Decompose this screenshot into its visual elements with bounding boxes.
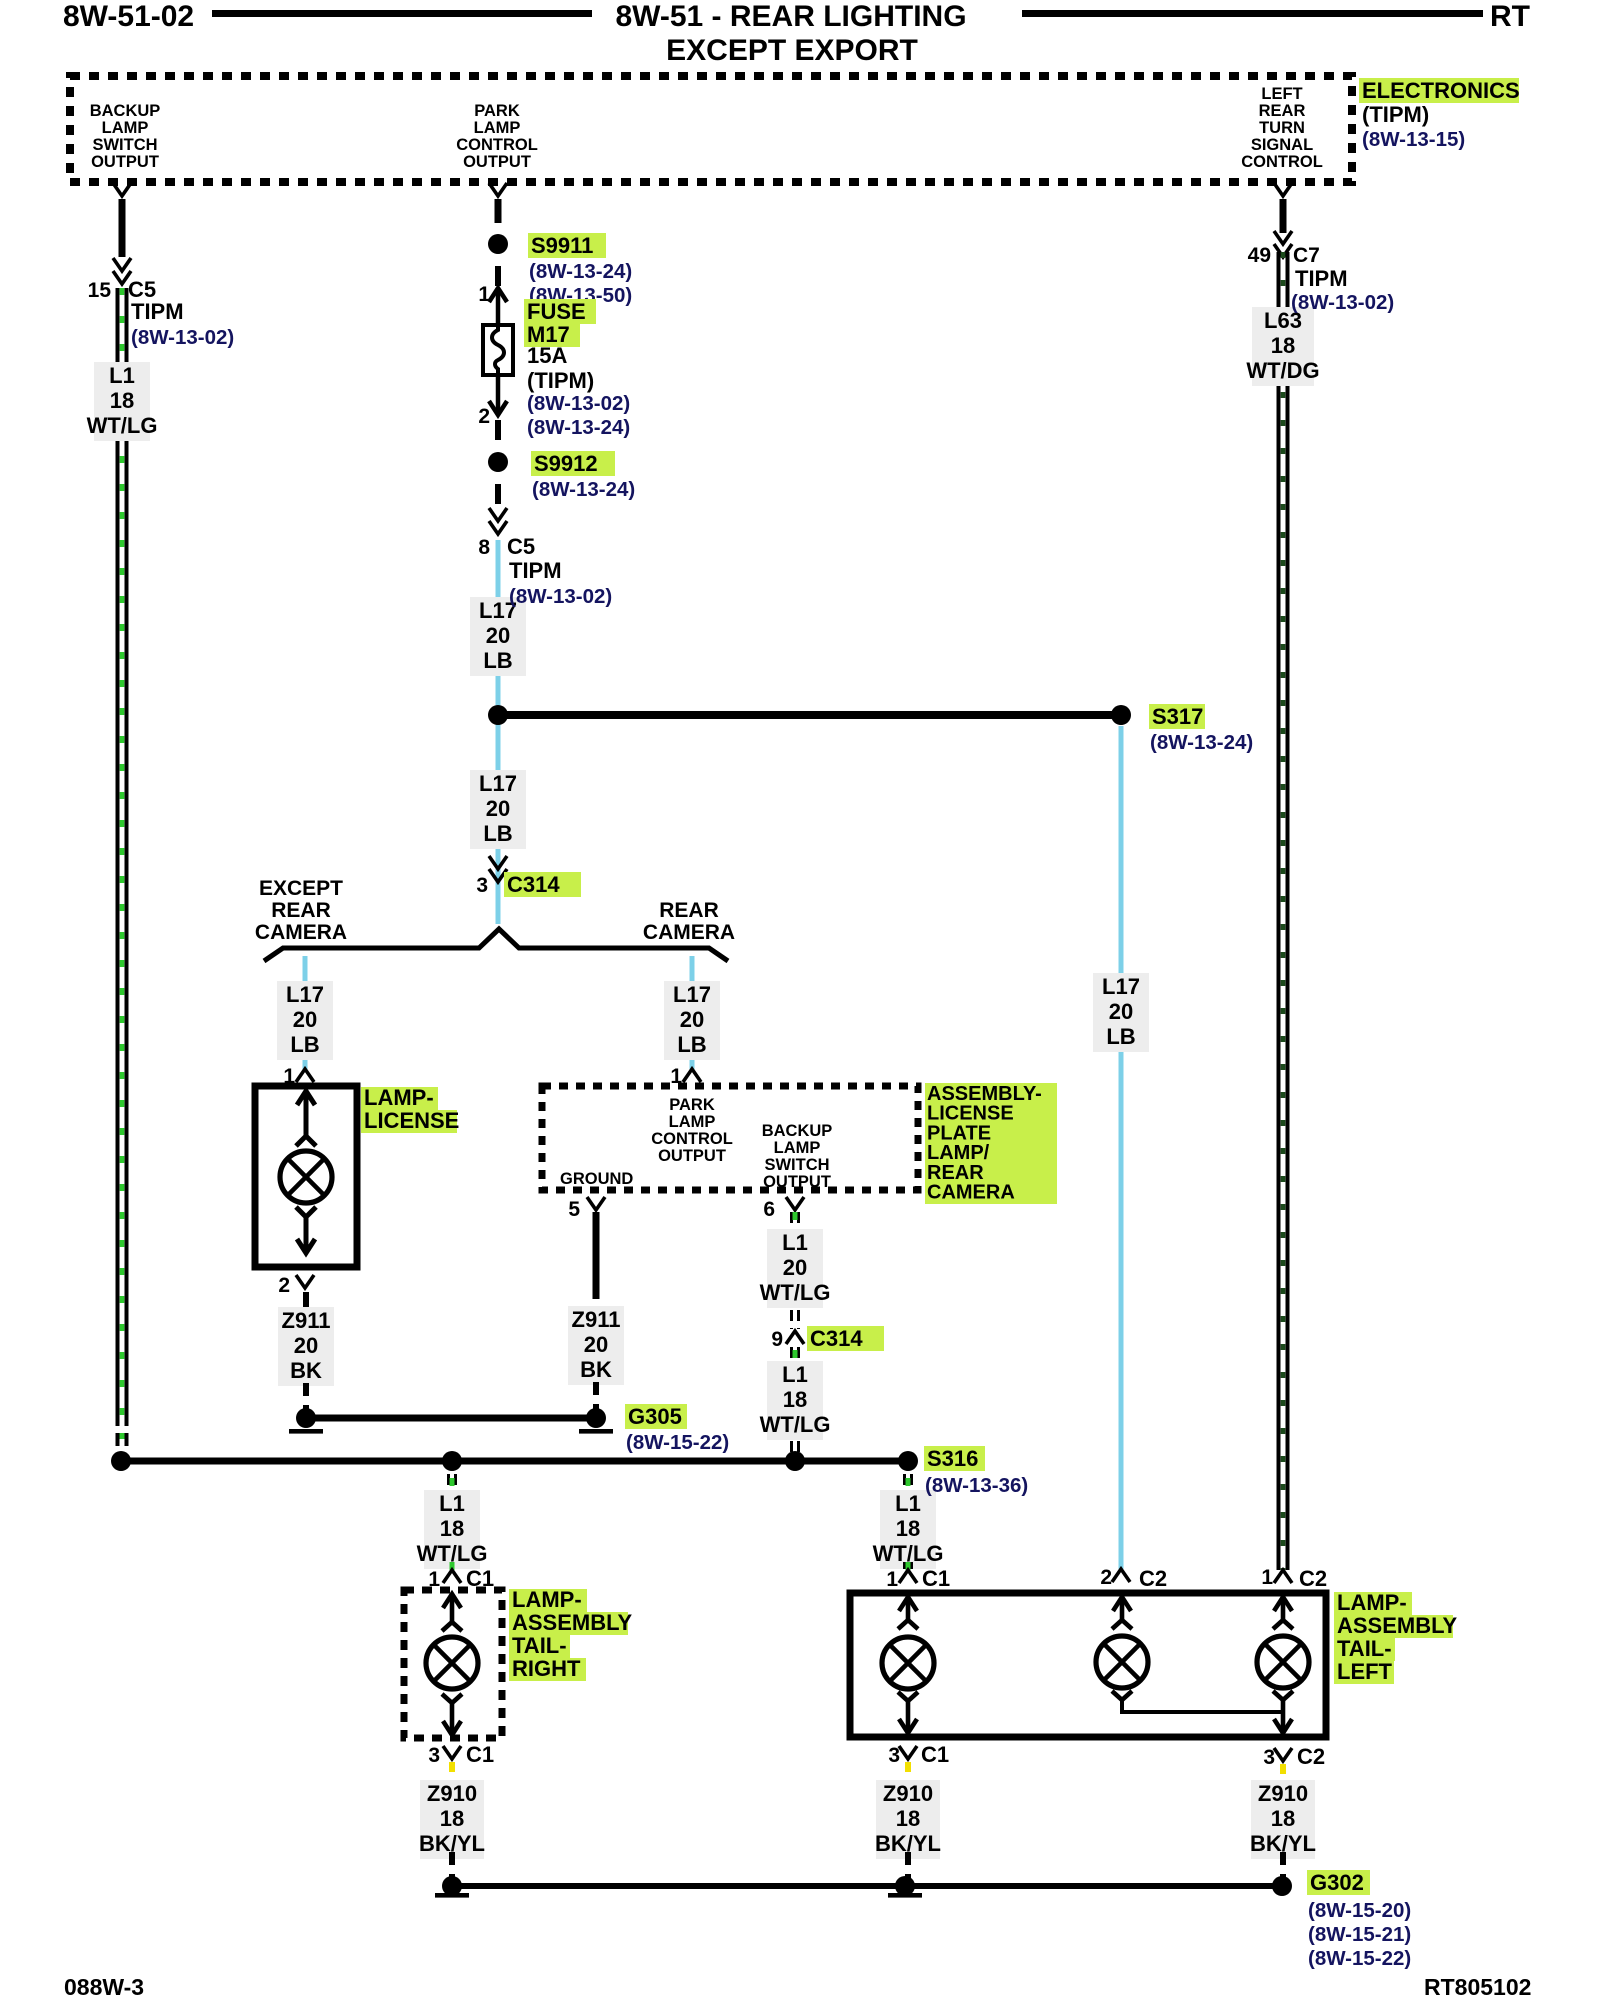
- wire label L1 18 WT/LG: [94, 362, 150, 441]
- svg-text:C314: C314: [507, 872, 560, 897]
- lamp assembly tail-left box: [850, 1593, 1326, 1737]
- svg-text:(8W-15-22): (8W-15-22): [626, 1431, 729, 1454]
- svg-text:(8W-13-24): (8W-13-24): [1150, 731, 1253, 754]
- svg-text:LB: LB: [290, 1032, 319, 1057]
- svg-text:18: 18: [440, 1806, 464, 1831]
- label ASSEMBLY-LICENSE PLATE LAMP/REAR CAMERA: [925, 1083, 1057, 1204]
- svg-text:LEFT: LEFT: [1337, 1659, 1393, 1684]
- pin chevron at TIPM park lamp output: [489, 183, 507, 196]
- svg-text:REAR: REAR: [1259, 102, 1306, 120]
- tail-left lamp 2 feed arrow: [1120, 1597, 1125, 1619]
- wire L17 20 LB to license lamp: [303, 956, 308, 1070]
- right tail lamp internal feed arrow: [450, 1594, 455, 1622]
- svg-text:L17: L17: [286, 982, 324, 1007]
- svg-text:3: 3: [428, 1744, 440, 1767]
- wire label Z910 18 BK/YL c: [1251, 1780, 1315, 1859]
- svg-text:8W-51 - REAR LIGHTING: 8W-51 - REAR LIGHTING: [615, 0, 966, 33]
- svg-text:WT/LG: WT/LG: [87, 413, 158, 438]
- svg-text:9: 9: [771, 1328, 783, 1351]
- svg-text:(8W-15-22): (8W-15-22): [1308, 1947, 1411, 1970]
- wire Z910 dashed to G302 (tail-left C2): [1280, 1852, 1286, 1878]
- lamp assembly tail-right dashed box: [404, 1590, 502, 1738]
- internal wire joining lamp 2 to lamp 3: [1122, 1700, 1283, 1712]
- wire label L1 20 WT/LG: [767, 1229, 823, 1308]
- svg-text:(8W-13-02): (8W-13-02): [1291, 291, 1394, 314]
- svg-text:C1: C1: [466, 1742, 494, 1767]
- svg-text:TURN: TURN: [1259, 119, 1305, 137]
- svg-text:2: 2: [1100, 1566, 1112, 1589]
- brace wire split to two branches: [264, 929, 728, 961]
- wire L1 18 WT/LG dashed: [790, 1347, 793, 1360]
- svg-text:Z910: Z910: [1258, 1781, 1308, 1806]
- svg-text:C1: C1: [922, 1566, 950, 1591]
- svg-text:18: 18: [110, 388, 134, 413]
- wire label L17 20 LB tail: [1093, 973, 1149, 1052]
- svg-text:(TIPM): (TIPM): [1362, 102, 1429, 127]
- header rule right: [1022, 10, 1483, 17]
- wire label L17 20 LB upper: [470, 597, 526, 676]
- svg-text:SIGNAL: SIGNAL: [1251, 136, 1313, 154]
- svg-text:ASSEMBLY-: ASSEMBLY-: [927, 1083, 1042, 1105]
- tail-left lamp 1 element: [882, 1637, 934, 1689]
- svg-text:LAMP: LAMP: [669, 1113, 716, 1131]
- wire stub from TIPM pin 15: [119, 199, 126, 257]
- svg-text:S9911: S9911: [531, 233, 593, 258]
- connector C7 double chevron (pin 49): [1274, 231, 1292, 244]
- svg-text:WT/LG: WT/LG: [760, 1412, 831, 1437]
- svg-text:L1: L1: [895, 1491, 921, 1516]
- tail-left lamp 2 ground chevron: [1112, 1691, 1132, 1700]
- ground G305 bus: [306, 1415, 596, 1422]
- tail-left lamp 3 element: [1257, 1636, 1309, 1688]
- label G305: [625, 1404, 687, 1429]
- svg-text:CAMERA: CAMERA: [927, 1182, 1015, 1204]
- svg-text:PARK: PARK: [669, 1096, 715, 1114]
- svg-text:REAR: REAR: [659, 899, 719, 922]
- svg-text:L1: L1: [439, 1491, 465, 1516]
- svg-text:LAMP: LAMP: [774, 1139, 821, 1157]
- svg-text:ASSEMBLY: ASSEMBLY: [1337, 1613, 1458, 1638]
- svg-text:OUTPUT: OUTPUT: [658, 1147, 726, 1165]
- svg-text:EXCEPT EXPORT: EXCEPT EXPORT: [666, 34, 918, 67]
- right tail lamp internal ground arrow: [442, 1694, 462, 1703]
- svg-text:C2: C2: [1299, 1566, 1327, 1591]
- wire dash below S9911: [495, 266, 501, 286]
- svg-text:LICENSE: LICENSE: [927, 1103, 1014, 1125]
- svg-text:LAMP-: LAMP-: [512, 1587, 582, 1612]
- svg-text:L1: L1: [109, 363, 135, 388]
- svg-text:LB: LB: [1106, 1024, 1135, 1049]
- svg-text:G305: G305: [628, 1404, 682, 1429]
- splice S316 bus: [121, 1458, 908, 1465]
- wire label L1 18 WT/LG left tail: [880, 1490, 936, 1569]
- svg-text:6: 6: [763, 1198, 775, 1221]
- wire label Z911 20 BK right: [568, 1306, 624, 1385]
- svg-text:(8W-13-24): (8W-13-24): [532, 478, 635, 501]
- wire label L17 20 LB lower: [470, 770, 526, 849]
- svg-text:18: 18: [440, 1516, 464, 1541]
- svg-text:CONTROL: CONTROL: [1241, 153, 1323, 171]
- svg-text:8W-51-02: 8W-51-02: [63, 0, 194, 33]
- header rule left: [212, 10, 592, 17]
- wire L1 18 WT/LG to right tail lamp: [447, 1474, 450, 1489]
- pin chevron at TIPM backup lamp output: [113, 183, 131, 196]
- svg-text:BK: BK: [580, 1357, 612, 1382]
- svg-text:LAMP-: LAMP-: [364, 1085, 434, 1110]
- svg-text:8: 8: [478, 536, 490, 559]
- tail-left lamp 3 feed arrow: [1281, 1597, 1286, 1619]
- pin chevron at TIPM left rear turn signal: [1274, 183, 1292, 196]
- svg-text:L17: L17: [673, 982, 711, 1007]
- wire L17 20 LB (center): [496, 540, 501, 924]
- svg-text:WT/DG: WT/DG: [1246, 358, 1319, 383]
- svg-text:C1: C1: [921, 1742, 949, 1767]
- connector C5 double chevron (pin 8): [489, 508, 507, 521]
- svg-text:088W-3: 088W-3: [64, 1974, 144, 2000]
- svg-text:5: 5: [568, 1198, 580, 1221]
- svg-text:PARK: PARK: [474, 102, 520, 120]
- svg-text:SWITCH: SWITCH: [764, 1156, 829, 1174]
- svg-text:BACKUP: BACKUP: [762, 1122, 833, 1140]
- svg-text:FUSE: FUSE: [527, 299, 586, 324]
- wire label Z910 18 BK/YL a: [420, 1780, 484, 1859]
- svg-text:S317: S317: [1152, 704, 1203, 729]
- svg-text:LEFT: LEFT: [1261, 85, 1302, 103]
- svg-text:TIPM: TIPM: [131, 299, 184, 324]
- svg-text:20: 20: [486, 623, 510, 648]
- wire label L17 20 LB branch left: [277, 981, 333, 1060]
- lamp LICENSE box: [255, 1086, 357, 1267]
- svg-text:18: 18: [783, 1387, 807, 1412]
- wire Z911 from ground pin: [593, 1212, 600, 1299]
- svg-text:RT805102: RT805102: [1424, 1974, 1531, 2000]
- svg-text:18: 18: [896, 1806, 920, 1831]
- wire L17 20 LB to assembly: [690, 956, 695, 1070]
- svg-text:CAMERA: CAMERA: [643, 921, 735, 944]
- svg-text:CAMERA: CAMERA: [255, 921, 347, 944]
- svg-text:LB: LB: [483, 821, 512, 846]
- svg-text:(8W-13-02): (8W-13-02): [131, 326, 234, 349]
- svg-text:S9912: S9912: [534, 451, 598, 476]
- svg-text:LAMP/: LAMP/: [927, 1142, 990, 1164]
- splice S317 junction: [498, 711, 1121, 719]
- svg-text:18: 18: [896, 1516, 920, 1541]
- svg-text:15A: 15A: [527, 343, 567, 368]
- svg-text:(8W-15-21): (8W-15-21): [1308, 1923, 1411, 1946]
- svg-text:G302: G302: [1310, 1870, 1364, 1895]
- svg-text:Z910: Z910: [883, 1781, 933, 1806]
- svg-text:L17: L17: [1102, 974, 1140, 999]
- svg-text:TIPM: TIPM: [1295, 266, 1348, 291]
- svg-text:2: 2: [278, 1274, 290, 1297]
- label LAMP-ASSEMBLY TAIL-LEFT: [1334, 1592, 1412, 1615]
- svg-text:Z910: Z910: [427, 1781, 477, 1806]
- label G302: [1307, 1870, 1370, 1895]
- tail-left lamp 1 feed arrow: [906, 1597, 911, 1619]
- svg-text:C7: C7: [1293, 244, 1320, 267]
- wire stub from turn signal control: [1280, 199, 1287, 233]
- svg-text:ELECTRONICS: ELECTRONICS: [1362, 78, 1520, 103]
- svg-text:20: 20: [783, 1255, 807, 1280]
- wire label Z911 20 BK left: [278, 1307, 334, 1386]
- wire L1 20 WT/LG dashed: [790, 1212, 793, 1228]
- svg-text:LB: LB: [483, 648, 512, 673]
- svg-text:BACKUP: BACKUP: [90, 102, 161, 120]
- right tail lamp element: [426, 1637, 478, 1689]
- svg-text:20: 20: [584, 1332, 608, 1357]
- svg-text:BK: BK: [290, 1358, 322, 1383]
- license lamp internal ground arrow: [296, 1207, 316, 1217]
- svg-text:LAMP-: LAMP-: [1337, 1590, 1407, 1615]
- license lamp element: [280, 1151, 332, 1203]
- svg-text:3: 3: [476, 874, 488, 897]
- svg-text:TIPM: TIPM: [509, 558, 562, 583]
- svg-text:GROUND: GROUND: [560, 1170, 633, 1188]
- tail-left lamp 2 element: [1096, 1636, 1148, 1688]
- wire label L1 18 WT/LG right tail: [424, 1490, 480, 1569]
- svg-text:OUTPUT: OUTPUT: [463, 153, 531, 171]
- svg-text:(8W-13-02): (8W-13-02): [527, 392, 630, 415]
- svg-text:C314: C314: [810, 1326, 863, 1351]
- svg-text:20: 20: [1109, 999, 1133, 1024]
- license lamp internal feed arrow: [304, 1091, 309, 1137]
- wire L63 18 WT/DG: [1277, 252, 1281, 1570]
- svg-text:20: 20: [293, 1007, 317, 1032]
- svg-text:LAMP: LAMP: [102, 119, 149, 137]
- ground G302 bus: [452, 1883, 1282, 1889]
- svg-text:SWITCH: SWITCH: [92, 136, 157, 154]
- splice S9911: [488, 234, 508, 254]
- svg-text:(8W-13-15): (8W-13-15): [1362, 128, 1465, 151]
- svg-text:EXCEPT: EXCEPT: [259, 877, 343, 900]
- svg-text:20: 20: [680, 1007, 704, 1032]
- svg-text:18: 18: [1271, 333, 1295, 358]
- svg-text:LB: LB: [677, 1032, 706, 1057]
- svg-text:S316: S316: [927, 1446, 978, 1471]
- wire Z910 dashed to G302 (tail-left C1): [905, 1852, 911, 1878]
- svg-text:TAIL-: TAIL-: [1337, 1636, 1392, 1661]
- svg-text:Z911: Z911: [572, 1307, 621, 1332]
- wire L1 18 WT/LG (left): [116, 288, 120, 1426]
- connector C314 double chevron (pin 3): [489, 856, 507, 869]
- svg-text:OUTPUT: OUTPUT: [763, 1173, 831, 1191]
- svg-text:20: 20: [294, 1333, 318, 1358]
- label ELECTRONICS (TIPM): [1359, 78, 1519, 103]
- svg-text:L17: L17: [479, 771, 517, 796]
- fuse M17 15A: [483, 325, 513, 375]
- svg-text:REAR: REAR: [271, 899, 331, 922]
- wire label L1 18 WT/LG mid: [767, 1361, 823, 1440]
- svg-text:OUTPUT: OUTPUT: [91, 153, 159, 171]
- svg-text:15: 15: [88, 279, 112, 302]
- wire label Z910 18 BK/YL b: [876, 1780, 940, 1859]
- tail-left lamp 3 ground arrow: [1273, 1691, 1293, 1700]
- svg-text:(8W-13-24): (8W-13-24): [527, 416, 630, 439]
- splice S9912: [488, 452, 508, 472]
- svg-text:1: 1: [886, 1568, 898, 1591]
- svg-text:C2: C2: [1139, 1566, 1167, 1591]
- svg-text:(8W-13-24): (8W-13-24): [529, 260, 632, 283]
- wire Z911 dashed to G305: [303, 1383, 309, 1412]
- svg-text:(8W-13-02): (8W-13-02): [509, 585, 612, 608]
- svg-text:CONTROL: CONTROL: [456, 136, 538, 154]
- wire stub from park lamp control output: [495, 199, 502, 223]
- svg-text:1: 1: [1261, 1566, 1273, 1589]
- svg-text:(TIPM): (TIPM): [527, 368, 594, 393]
- svg-text:C5: C5: [507, 534, 535, 559]
- svg-text:18: 18: [1271, 1806, 1295, 1831]
- svg-text:20: 20: [486, 796, 510, 821]
- svg-text:(8W-15-20): (8W-15-20): [1308, 1899, 1411, 1922]
- svg-text:2: 2: [478, 405, 490, 428]
- wire L17 20 LB from S317: [1119, 726, 1124, 1569]
- module TIPM (ELECTRONICS) dashed box: [70, 76, 1352, 182]
- svg-text:L1: L1: [782, 1230, 808, 1255]
- svg-text:PLATE: PLATE: [927, 1122, 991, 1144]
- assembly license plate lamp / rear camera dashed box: [542, 1086, 918, 1190]
- svg-text:1: 1: [478, 283, 490, 306]
- svg-text:Z911: Z911: [282, 1308, 331, 1333]
- svg-text:REAR: REAR: [927, 1162, 984, 1184]
- wire L1 18 WT/LG to tail-left lamp pin 1: [903, 1474, 906, 1491]
- svg-text:LICENSE: LICENSE: [364, 1108, 459, 1133]
- label S316: [924, 1446, 985, 1471]
- svg-text:49: 49: [1248, 244, 1271, 267]
- wire label L17 20 LB branch right: [664, 981, 720, 1060]
- svg-text:RT: RT: [1490, 0, 1530, 33]
- tail-left lamp 1 ground arrow: [898, 1692, 918, 1701]
- svg-text:CONTROL: CONTROL: [651, 1130, 733, 1148]
- wire Z910 dashed to G302 (right tail): [449, 1852, 455, 1878]
- wire dash below S9912: [495, 484, 501, 504]
- wire label L63 18 WT/DG: [1252, 307, 1314, 386]
- connector C5 double chevron: [113, 258, 131, 271]
- svg-text:L1: L1: [782, 1362, 808, 1387]
- svg-text:(8W-13-36): (8W-13-36): [925, 1474, 1028, 1497]
- svg-text:C2: C2: [1297, 1744, 1325, 1769]
- label LAMP-LICENSE: [361, 1087, 438, 1110]
- label LAMP-ASSEMBLY TAIL-RIGHT: [509, 1589, 587, 1612]
- svg-text:TAIL-: TAIL-: [512, 1633, 567, 1658]
- svg-text:WT/LG: WT/LG: [760, 1280, 831, 1305]
- svg-text:RIGHT: RIGHT: [512, 1656, 581, 1681]
- svg-text:LAMP: LAMP: [474, 119, 521, 137]
- svg-text:ASSEMBLY: ASSEMBLY: [512, 1610, 633, 1635]
